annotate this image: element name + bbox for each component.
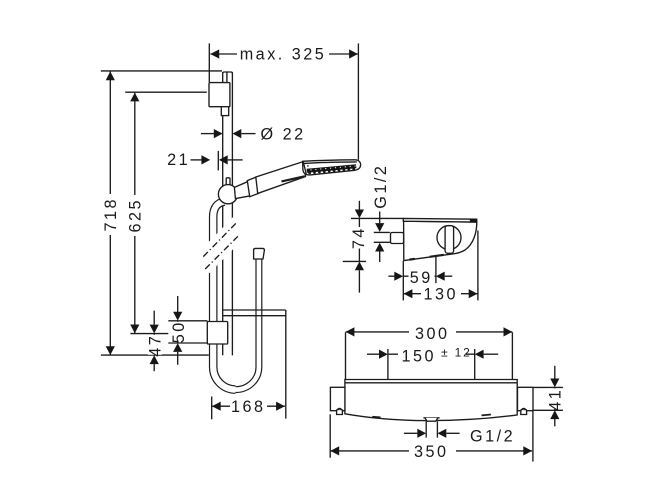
svg-text:G1/2: G1/2 (372, 164, 390, 209)
dimension G1/2 front (404, 421, 515, 445)
handshower handle (256, 162, 306, 194)
dimension 168 (212, 397, 285, 420)
shelf dark end (470, 219, 477, 223)
slider tab (226, 178, 230, 187)
wire rail-top-cap (223, 72, 233, 74)
break symbol (199, 217, 243, 273)
svg-text:max. 325: max. 325 (240, 45, 327, 63)
dimension 130 (404, 285, 478, 304)
side bottom tab 2 (409, 258, 415, 261)
right wall block (518, 387, 534, 410)
wire rail-left-line (222, 72, 224, 355)
handshower band (247, 177, 258, 197)
left wall block (330, 387, 345, 410)
hose conical fitting (254, 248, 265, 259)
svg-text:130: 130 (424, 285, 459, 303)
extension line C (bracket bottom) (168, 342, 207, 344)
dimension 41 (534, 366, 565, 427)
spray face band (307, 166, 356, 170)
svg-text:350: 350 (414, 443, 449, 461)
porter arm (223, 310, 286, 316)
outlet nub (423, 418, 439, 421)
extension line D (rail end / ground) (101, 354, 209, 356)
svg-text:168: 168 (231, 398, 266, 416)
spray face specks (310, 165, 355, 170)
dimension G1/2 side (372, 164, 390, 262)
spray face scallops (308, 168, 355, 175)
side extension right (477, 231, 479, 301)
side body (404, 221, 477, 260)
shower hose (213, 202, 259, 390)
dimension 59 (388, 267, 452, 287)
right block notch (521, 409, 527, 414)
svg-text:625: 625 (127, 198, 145, 233)
top wall bracket (209, 83, 230, 107)
svg-text:Ø 22: Ø 22 (261, 125, 306, 143)
dimension 74 (343, 201, 404, 293)
wire rail-top-inner (226, 72, 228, 82)
side knob grip (445, 226, 454, 254)
side extension left (402, 261, 404, 301)
dimension 21 (167, 151, 243, 171)
svg-text:718: 718 (102, 197, 120, 232)
front body (345, 380, 517, 421)
dimension 300 (346, 322, 513, 379)
svg-text:G1/2: G1/2 (470, 427, 515, 445)
side extension middle (435, 257, 437, 284)
dimension Ø22 (201, 125, 306, 143)
porter arm right end / 168 right extension (285, 310, 287, 419)
side outlet port (391, 233, 404, 244)
head joint line (303, 161, 306, 174)
svg-text:74: 74 (350, 226, 368, 249)
bracket neck (221, 107, 228, 116)
handshower cone (234, 182, 250, 199)
dimension 150 +-12 (367, 345, 498, 380)
select slit (282, 176, 305, 181)
handshower head (303, 160, 361, 175)
dimension max.325 (209, 43, 358, 159)
head tip dot (307, 165, 309, 167)
svg-text:59: 59 (410, 269, 433, 287)
front shelf line (345, 382, 517, 384)
side bottom tab 1 (430, 255, 444, 257)
dimension 350 (330, 411, 533, 462)
front tick left (372, 416, 380, 419)
dimension 50 (170, 296, 188, 365)
dimension 625 (125, 92, 207, 333)
head top inner line (304, 162, 357, 164)
svg-text:50: 50 (170, 320, 188, 343)
side shelf (403, 218, 477, 222)
dimension 718 (101, 71, 222, 355)
bottom wall bracket (207, 322, 227, 345)
dimension 47 (147, 311, 165, 372)
extension line A (bracket top) (168, 320, 207, 322)
extension line B (hook level) (130, 333, 168, 335)
slider knob (218, 185, 237, 204)
left block notch (337, 409, 343, 414)
wire rail-right-line (231, 72, 233, 355)
side knob circle (437, 226, 461, 250)
svg-text:47: 47 (147, 334, 165, 357)
svg-text:300: 300 (415, 325, 450, 343)
svg-text:21: 21 (167, 151, 190, 169)
front tick right (482, 414, 491, 417)
svg-text:41: 41 (546, 388, 564, 411)
